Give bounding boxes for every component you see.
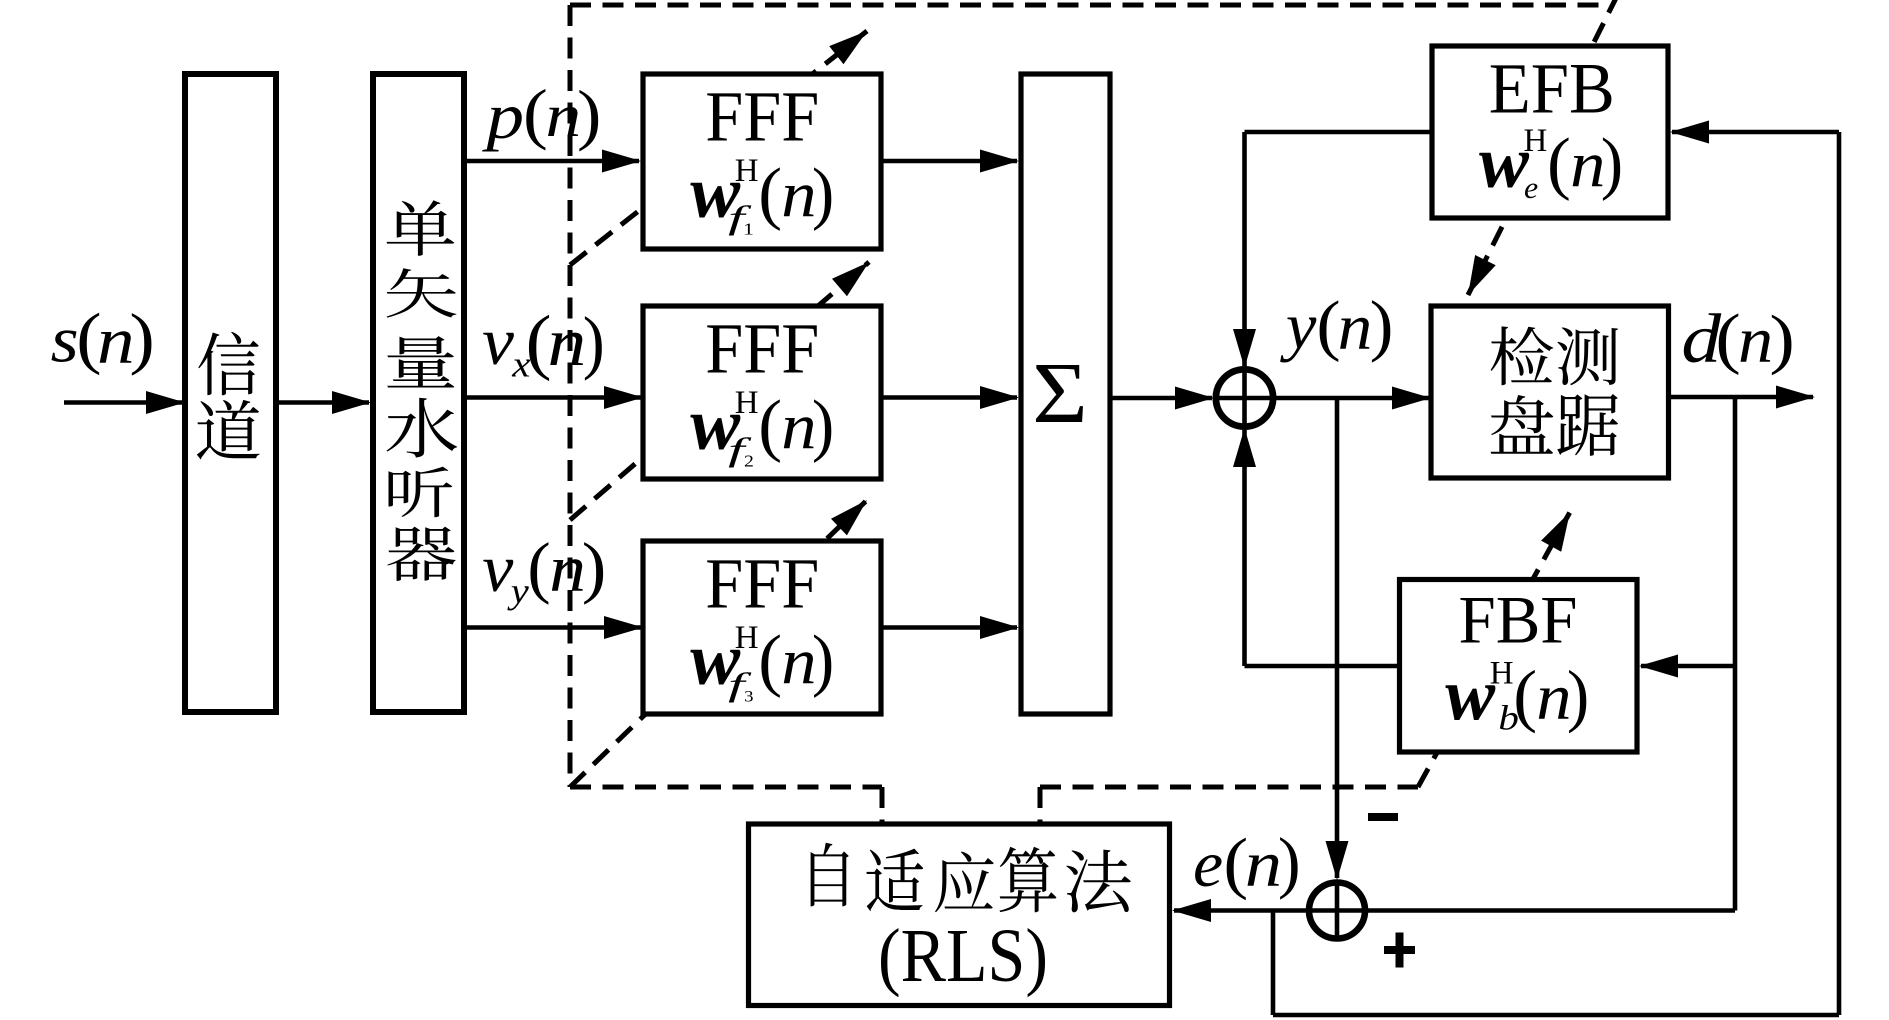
label: 法 xyxy=(1066,850,1131,913)
svg-text:): ) xyxy=(812,621,834,699)
label: vy(n) xyxy=(482,531,513,606)
svg-text:(: ( xyxy=(1715,300,1740,375)
svg-text:n: n xyxy=(549,531,586,606)
svg-text:v: v xyxy=(482,305,514,380)
wire: s(n) input arrow into channel xyxy=(64,400,183,405)
svg-text:): ) xyxy=(582,531,607,606)
wire: y(n) junction to detector xyxy=(1274,396,1429,401)
label: vx(n) xyxy=(482,305,514,380)
svg-text:): ) xyxy=(812,386,834,464)
box: FFF2 xyxy=(643,306,881,479)
label: s(n) xyxy=(51,304,79,376)
svg-text:FFF: FFF xyxy=(705,76,819,156)
svg-text:(RLS): (RLS) xyxy=(878,914,1048,998)
svg-text:n: n xyxy=(1738,304,1773,376)
label: minus sign at e(n) junction xyxy=(1368,813,1398,821)
svg-text:H: H xyxy=(1524,123,1548,159)
wire: dashed stub down into RLS top-left xyxy=(880,787,885,826)
box: detector xyxy=(1431,306,1669,478)
svg-text:y: y xyxy=(1280,289,1317,363)
wire: branch into FBF input xyxy=(1641,664,1735,669)
svg-text:n: n xyxy=(1338,290,1373,363)
label: y(n) xyxy=(1280,289,1317,363)
box: FFF1 xyxy=(643,74,881,249)
box: FFF3 xyxy=(643,541,881,714)
svg-text:(: ( xyxy=(1547,125,1571,202)
svg-text:H: H xyxy=(1490,656,1514,692)
wire: channel to hydrophone arrow xyxy=(276,400,369,405)
wire: FBF output elbow up into y(n) junction xyxy=(1245,664,1402,669)
svg-text:): ) xyxy=(583,302,605,381)
label: 测 xyxy=(1557,327,1618,385)
label: 信 in channel box xyxy=(198,332,258,395)
svg-text:(: ( xyxy=(523,76,548,151)
wire: sigma output to y(n) junction xyxy=(1110,396,1212,401)
label: 踞 xyxy=(1557,394,1618,456)
wire: e(n) feedback branch down xyxy=(1271,911,1276,1016)
wire: y(n) branch down into e(n) junction xyxy=(1335,398,1340,878)
wire: FFF3 output into sum xyxy=(881,625,1017,630)
box: EFB xyxy=(1432,46,1668,218)
wire: dashed stub down into RLS top-right xyxy=(1038,787,1043,826)
wire: p(n) line into FFF1 xyxy=(464,159,639,164)
wire: dashed update bus vertical from RLS xyxy=(568,5,573,787)
svg-text:): ) xyxy=(1601,124,1623,202)
label: p(n) xyxy=(481,81,524,152)
svg-text:H: H xyxy=(735,385,759,421)
label: e(n) xyxy=(1193,829,1223,901)
svg-text:e: e xyxy=(1524,170,1538,204)
svg-text:H: H xyxy=(735,620,759,656)
label: 器 xyxy=(387,527,455,581)
svg-text:(: ( xyxy=(527,529,550,605)
svg-text:(: ( xyxy=(758,622,782,699)
svg-text:): ) xyxy=(1769,301,1794,376)
svg-text:y: y xyxy=(506,572,529,611)
svg-text:): ) xyxy=(1370,288,1394,363)
label: EFB weight w_e^H(n) xyxy=(1479,123,1529,204)
label: FFF2 weight w_f2^H(n) xyxy=(690,385,740,466)
wire: right feedback vertical up to EFB xyxy=(1837,132,1842,1015)
label: 算 xyxy=(1000,847,1057,913)
label: FFF1 weight w_f1^H(n) xyxy=(690,153,740,234)
svg-text:(: ( xyxy=(758,155,782,232)
svg-text:): ) xyxy=(812,154,834,232)
svg-text:(: ( xyxy=(758,387,782,464)
label: FFF3 weight w_f3^H(n) xyxy=(690,620,740,701)
svg-text:FFF: FFF xyxy=(705,308,819,388)
node: e(n) summing junction xyxy=(1309,883,1365,939)
wire: dashed update bus top horizontal xyxy=(570,3,1605,8)
svg-text:EFB: EFB xyxy=(1489,48,1615,128)
node: y(n) summing junction xyxy=(1216,369,1273,426)
svg-text:p: p xyxy=(481,81,524,152)
label: plus sign at e(n) junction xyxy=(1384,946,1415,954)
svg-text:): ) xyxy=(129,299,154,376)
svg-text:FFF: FFF xyxy=(705,543,819,623)
svg-text:(: ( xyxy=(1513,657,1537,734)
wire: dashed adaptation arrow through FFF1 xyxy=(570,31,867,265)
svg-text:w: w xyxy=(1479,123,1529,204)
box: FBF xyxy=(1400,580,1638,753)
label: 量 xyxy=(387,336,454,387)
label: 道 in channel box xyxy=(197,400,260,460)
svg-text:3: 3 xyxy=(744,687,754,705)
wire: FFF2 output into sum xyxy=(881,395,1017,400)
wire: feedback into EFB input xyxy=(1672,130,1839,135)
wire: EFB output elbow down into y(n) junction xyxy=(1245,130,1435,135)
wire: dashed adaptation arrow through FFF2 xyxy=(570,262,869,520)
svg-text:): ) xyxy=(1278,824,1301,900)
label: 检 xyxy=(1491,326,1554,385)
label: d(n) xyxy=(1681,301,1721,378)
wire: d(n) output arrow xyxy=(1668,395,1813,400)
label: 单 xyxy=(387,200,455,256)
box: channel xyxy=(185,74,276,712)
label: 听 xyxy=(388,467,452,518)
wire: dashed update bus bottom-left horizontal xyxy=(570,785,882,790)
label: 矢 xyxy=(386,268,456,317)
wire: FFF1 output into sum xyxy=(881,159,1017,164)
svg-text:2: 2 xyxy=(744,452,754,470)
svg-text:n: n xyxy=(1245,829,1282,901)
wire: bottom feedback line xyxy=(1273,1013,1839,1018)
svg-text:e: e xyxy=(1193,829,1223,901)
svg-text:w: w xyxy=(1445,655,1495,736)
wire: dashed adaptation arrow through FFF3 xyxy=(570,500,867,787)
svg-text:): ) xyxy=(1567,656,1589,734)
svg-text:n: n xyxy=(546,83,582,150)
wire: e(n) line into adaptive algorithm xyxy=(1174,908,1735,913)
svg-text:v: v xyxy=(482,531,513,606)
label: 适 xyxy=(866,849,923,912)
box: adaptive algorithm RLS xyxy=(749,824,1170,1006)
wire: vy(n) line into FFF3 xyxy=(464,625,641,630)
wire: dashed update bus bottom-right horizontal xyxy=(1040,785,1418,790)
svg-text:FBF: FBF xyxy=(1459,582,1578,658)
box: single vector hydrophone xyxy=(373,74,464,712)
svg-text:1: 1 xyxy=(743,221,754,239)
label: 盘 xyxy=(1491,395,1554,454)
svg-text:H: H xyxy=(735,153,759,189)
svg-text:s: s xyxy=(51,304,79,376)
box: sum sigma xyxy=(1021,74,1110,714)
wire: dashed adaptation arrow through EFB xyxy=(1468,0,1618,295)
label: FBF weight w_b^H(n) xyxy=(1445,655,1495,736)
svg-text:n: n xyxy=(548,303,587,380)
wire: d(n) branch down to e(n) junction xyxy=(1733,397,1738,911)
label: 自 xyxy=(811,843,849,907)
label: 水 xyxy=(387,398,458,458)
label: 应 xyxy=(935,851,994,912)
svg-text:): ) xyxy=(577,77,601,152)
wire: dashed adaptation arrow through FBF xyxy=(1418,512,1570,787)
svg-text:Σ: Σ xyxy=(1032,344,1088,441)
wire: vx(n) line into FFF2 xyxy=(464,395,641,400)
